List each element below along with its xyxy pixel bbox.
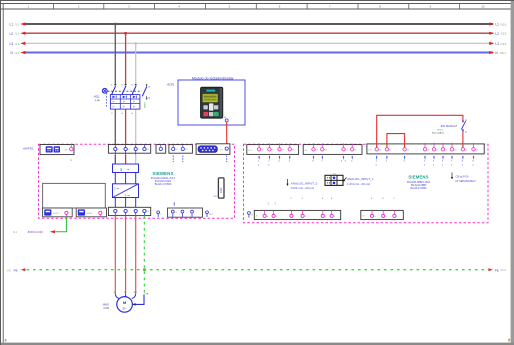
svg-text:D5: D5	[316, 149, 318, 151]
wire PE drop green	[143, 216, 145, 295]
svg-text:4:1: 4:1	[256, 216, 259, 218]
svg-text:4:3: 4:3	[305, 150, 308, 152]
wire to 3AC L3	[135, 155, 137, 165]
Q1 aux contact	[142, 84, 150, 108]
wire L2	[10, 32, 508, 36]
control unit enclosure box	[244, 144, 489, 223]
svg-text:Manual/Auto: Manual/Auto	[432, 132, 445, 135]
svg-text:L1: L1	[10, 23, 14, 27]
terminal block A	[247, 143, 299, 154]
svg-text:A0: A0	[379, 148, 381, 151]
terminal block X1 RS485	[40, 144, 74, 162]
svg-text:NO/NC: NO/NC	[53, 213, 59, 215]
svg-text:D4: D4	[292, 149, 294, 151]
Q1 pole 1	[111, 84, 116, 115]
svg-text:230V: 230V	[220, 187, 223, 193]
wire Q1 to VFD L1	[114, 110, 116, 146]
svg-text:DI SEPARATELY: DI SEPARATELY	[456, 179, 477, 183]
bottom stub terminal CU	[248, 212, 254, 218]
svg-text:T1: T1	[175, 212, 177, 214]
motor PE hook	[133, 294, 149, 306]
red jumper loop big with switch S1	[377, 115, 463, 147]
svg-text:3~: 3~	[123, 307, 127, 311]
Q1 pole 2	[121, 84, 126, 115]
wire N	[11, 51, 507, 55]
svg-text:-8CP1: -8CP1	[167, 83, 175, 87]
terminal block B	[303, 143, 362, 154]
svg-text:/10.1: /10.1	[500, 51, 507, 55]
svg-text:G0: G0	[407, 149, 409, 151]
circuit breaker Q1	[93, 88, 142, 107]
svg-text:PE: PE	[14, 269, 18, 273]
svg-text:BL220-1YCB60: BL220-1YCB60	[155, 183, 172, 186]
wire Q1 to VFD L3	[135, 110, 137, 146]
SIEMENS label CU	[407, 175, 431, 191]
terminal block X3	[156, 145, 166, 154]
COM wire green	[13, 217, 66, 234]
svg-text:14: 14	[465, 131, 467, 133]
svg-text:SIEMENS: SIEMENS	[152, 171, 173, 176]
svg-text:13: 13	[465, 120, 467, 122]
relay output block G	[76, 208, 106, 217]
svg-text:-8MG: -8MG	[102, 302, 109, 306]
svg-text:-8KM1: -8KM1	[145, 101, 147, 108]
svg-text:PE: PE	[495, 268, 499, 272]
svg-text:W1: W1	[134, 292, 137, 294]
svg-text:24: 24	[346, 149, 348, 151]
svg-text:4:2: 4:2	[362, 216, 365, 218]
svg-text:D2: D2	[272, 149, 274, 151]
svg-text:L2: L2	[10, 32, 14, 36]
wire numbers under C	[376, 161, 475, 167]
svg-text:-8S1 MAN/AUT: -8S1 MAN/AUT	[440, 125, 458, 128]
Q1 pole 3	[131, 84, 136, 115]
D-sub connector X5	[196, 144, 230, 162]
VFD internal big block	[43, 183, 106, 208]
red jumper loop small	[387, 134, 405, 148]
svg-text:SIEMENS: SIEMENS	[408, 175, 428, 180]
3AC block	[113, 164, 139, 173]
svg-text:-8VFD1.COM: -8VFD1.COM	[27, 230, 43, 234]
terminal block C	[367, 143, 484, 154]
terminal block E	[361, 210, 404, 219]
wire W motor	[135, 216, 137, 294]
wire tap L1	[114, 23, 116, 85]
braking resistor bar R1	[213, 178, 224, 198]
wire U motor	[114, 216, 116, 294]
svg-text:L2: L2	[495, 32, 499, 36]
wire conv to out 1	[114, 198, 116, 208]
VFD enclosure box	[23, 144, 235, 218]
DIP switch	[325, 173, 347, 185]
wire numbers under B	[312, 161, 353, 163]
svg-text:~: ~	[117, 186, 120, 191]
svg-text:D2: D2	[445, 149, 447, 151]
aux stub terminal left of H	[157, 211, 162, 217]
svg-text:0.0/4 mA...20 mA: 0.0/4 mA...20 mA	[291, 186, 314, 190]
svg-text:CB at P-DI: CB at P-DI	[456, 174, 469, 178]
svg-text:3 kW: 3 kW	[103, 307, 109, 310]
svg-text:-8R1: -8R1	[213, 196, 219, 198]
svg-text:x0.2: x0.2	[275, 202, 277, 205]
keypad terminal	[224, 117, 228, 122]
frequency converter block	[113, 184, 139, 198]
wire conv to out 3	[135, 198, 137, 208]
wire 3AC to conv 2	[125, 173, 127, 184]
svg-text:6SL3244-0BB12-1FA0: 6SL3244-0BB12-1FA0	[407, 181, 431, 184]
PE line	[7, 268, 507, 272]
selector switch S1	[432, 120, 467, 135]
svg-text:/10.8: /10.8	[500, 269, 506, 272]
DI note	[451, 173, 476, 183]
wire conv to out 2	[125, 198, 127, 208]
svg-text:L1: L1	[495, 23, 499, 27]
svg-text:/1.1: /1.1	[15, 42, 20, 46]
svg-text:~: ~	[127, 167, 130, 172]
SIEMENS label VFD	[151, 171, 176, 186]
wire 3AC to conv 3	[135, 173, 137, 184]
svg-text:/1.1: /1.1	[15, 22, 20, 26]
svg-text:6,3A: 6,3A	[95, 99, 100, 102]
svg-text:U1: U1	[114, 292, 116, 294]
wire tap L3	[135, 42, 137, 85]
aux stub terminal right of H	[206, 211, 214, 217]
svg-text:L3: L3	[138, 149, 140, 151]
svg-text:/1.1: /1.1	[15, 32, 20, 36]
svg-text:V1: V1	[124, 292, 126, 294]
wire arrows under A	[258, 156, 291, 160]
relay output block F	[43, 208, 73, 217]
svg-text:ANALOG_INPUT_1: ANALOG_INPUT_1	[347, 177, 374, 181]
svg-text:+8VFD1: +8VFD1	[23, 147, 34, 151]
wire keypad to X2	[226, 122, 228, 147]
svg-text:D3: D3	[282, 149, 284, 151]
svg-text:D1: D1	[261, 149, 263, 151]
terminal block X2 power in	[108, 145, 150, 155]
svg-text:X21: X21	[220, 149, 223, 151]
svg-text:D4: D4	[465, 149, 467, 151]
column header dividers and numbers	[54, 4, 460, 10]
terminal block H	[168, 202, 203, 217]
svg-text:/10.1: /10.1	[500, 32, 507, 36]
wire to 3AC L2	[125, 155, 127, 165]
svg-text:/9.8: /9.8	[7, 269, 12, 272]
svg-text:6SL3244-0BB0: 6SL3244-0BB0	[411, 185, 427, 187]
svg-text:L2: L2	[128, 149, 130, 151]
analog input 1 note	[347, 177, 374, 186]
svg-text:485: 485	[65, 150, 68, 152]
wire 3AC to conv 1	[114, 173, 116, 184]
wire L3	[10, 42, 508, 46]
wire arrows under B	[313, 156, 354, 160]
svg-text:D1: D1	[436, 149, 438, 151]
svg-text:9: 9	[160, 214, 161, 216]
svg-text:D0: D0	[427, 149, 429, 151]
svg-text:/1.1: /1.1	[15, 51, 20, 55]
wire arrows under C	[376, 156, 475, 160]
svg-text:L3: L3	[10, 42, 14, 46]
wire to 3AC L1	[114, 155, 116, 165]
wire tap L2	[124, 32, 126, 85]
keypad device	[201, 87, 223, 118]
svg-text:L1: L1	[117, 149, 119, 151]
svg-text:L3: L3	[495, 42, 499, 46]
svg-text:x0.1: x0.1	[268, 202, 270, 205]
svg-text:/9.1: /9.1	[13, 231, 18, 234]
motor M1	[102, 292, 136, 312]
svg-text:~: ~	[127, 193, 130, 198]
analog input 0 note	[286, 179, 317, 190]
terminal block D	[254, 210, 340, 219]
svg-text:/10.1: /10.1	[500, 22, 507, 26]
wire numbers under A	[258, 161, 291, 167]
svg-text:A1: A1	[389, 148, 391, 151]
svg-text:(P/11): (P/11)	[437, 129, 443, 131]
blue marks above bottom blocks	[290, 198, 395, 200]
wire L1	[10, 22, 508, 26]
svg-text:BL220-1YCB60: BL220-1YCB60	[411, 188, 428, 190]
wire Q1 to VFD L2	[125, 110, 127, 146]
svg-text:NO/NC: NO/NC	[87, 213, 93, 215]
keypad module CP1	[167, 77, 245, 125]
svg-text:4:31: 4:31	[248, 150, 252, 152]
QET logo marks	[5, 339, 510, 342]
wire V motor	[125, 216, 127, 294]
svg-text:ANALOG_INPUT_0: ANALOG_INPUT_0	[291, 181, 318, 185]
Q1 trip unit grid	[110, 95, 139, 110]
svg-text:D3: D3	[454, 149, 456, 151]
svg-text:Módulo do teclado/display: Módulo do teclado/display	[192, 77, 234, 81]
svg-text:D6: D6	[324, 149, 326, 151]
svg-text:1.0/4 mA...20 mA: 1.0/4 mA...20 mA	[347, 182, 370, 186]
svg-text:D5: D5	[476, 149, 478, 151]
motor output terminal block	[108, 207, 150, 215]
terminal block X4	[169, 145, 193, 162]
svg-text:-8Q1: -8Q1	[93, 95, 100, 99]
svg-text:/10.1: /10.1	[500, 42, 507, 46]
